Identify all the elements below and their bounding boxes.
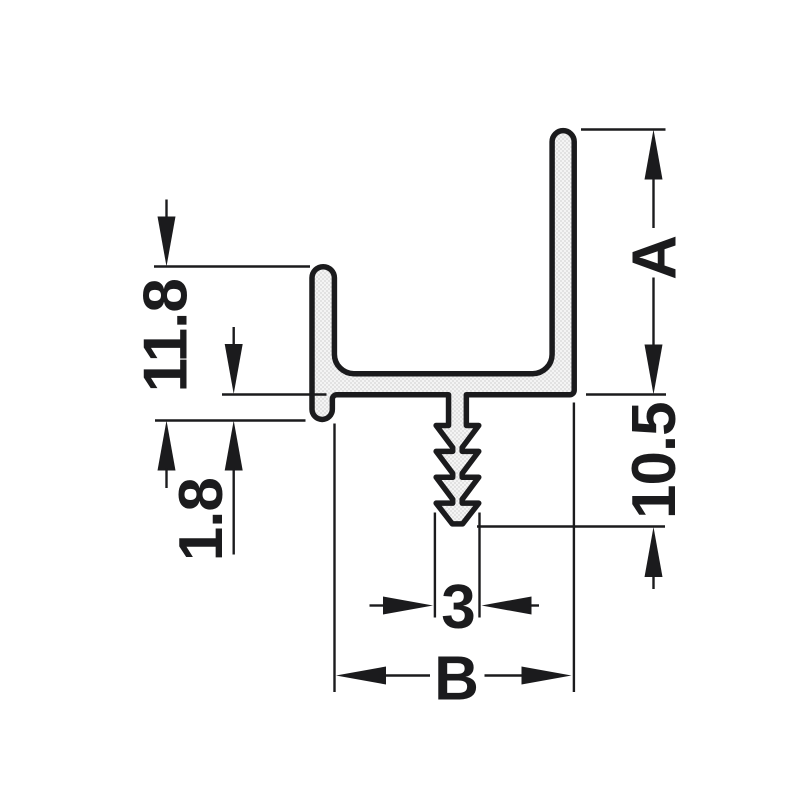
svg-text:3: 3 [441,573,475,642]
svg-text:1.8: 1.8 [167,478,236,561]
extension line: 3 left [434,513,436,618]
dimension A lower arrow (pointing down) [652,278,654,347]
svg-text:B: B [434,645,479,714]
extension line: bottom of web (right side) [586,393,666,395]
svg-text:11.8: 11.8 [132,279,201,392]
dimension 3 left arrow (pointing right) [370,604,385,606]
dimension 11.8 upper arrow (pointing down) [165,200,167,220]
dimension B left arrow (pointing left) [336,667,386,685]
extension line: top of right flange [581,128,666,130]
extension line: B left [333,424,335,693]
svg-text:10.5: 10.5 [620,402,689,519]
extension line: spigot tip [477,525,665,527]
dimension 1.8 upper arrow (pointing down) [232,327,234,346]
dimension 3 right arrow (pointing left) [482,597,532,615]
aluminium profile cross-section (channel with barbed spigot) [312,131,574,524]
extension line: B right [573,403,575,693]
dimension A upper arrow (pointing up) [645,130,663,180]
dimension 11.8 lower arrow (pointing up) [158,421,176,471]
extension line: bottom of web (left side) [222,393,327,395]
dimension 10.5 arrow (pointing up) [645,527,663,577]
svg-text:A: A [620,235,689,280]
extension line: bottom of left lip [155,419,306,421]
extension line: 3 right [478,513,480,618]
dimension 1.8 lower arrow (pointing up) [225,421,243,471]
dimension B right arrow (pointing right) [485,674,524,676]
extension line: top of left flange [154,265,310,267]
